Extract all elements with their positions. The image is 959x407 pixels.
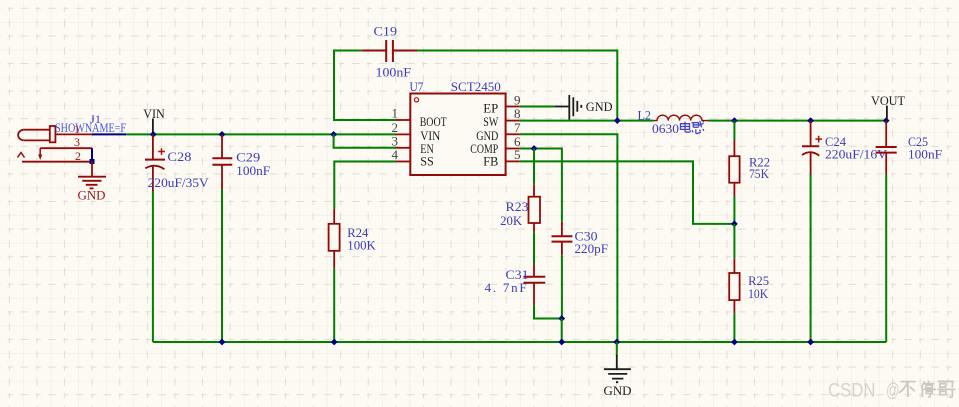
wire FB to divider node	[520, 161, 735, 224]
capacitor C30	[552, 222, 609, 256]
junction SW node	[614, 117, 621, 124]
svg-text:CSDN: CSDN	[828, 379, 876, 401]
pin 2 VIN	[392, 120, 411, 135]
wire EP to ground	[520, 106, 555, 108]
wire node down to rail	[561, 319, 563, 343]
svg-text:C19: C19	[374, 24, 398, 39]
svg-text:100nF: 100nF	[376, 65, 412, 80]
junction rail-R22	[731, 117, 738, 124]
capacitor C29	[212, 134, 270, 189]
svg-text:1: 1	[392, 106, 399, 121]
wire top from BOOT loop to C19 left	[334, 50, 362, 52]
wire C31 bottom elbow to C30 node	[534, 305, 562, 318]
svg-text:9: 9	[514, 92, 521, 107]
svg-text:GND: GND	[78, 188, 106, 203]
wire VOUT rail	[708, 120, 886, 122]
svg-text:C28: C28	[167, 149, 191, 164]
svg-text:7: 7	[514, 120, 521, 135]
junction rail-R24	[331, 339, 338, 346]
pin 6 COMP	[506, 134, 521, 149]
resistor R25	[729, 258, 769, 313]
svg-text:4. 7nF: 4. 7nF	[485, 280, 527, 295]
svg-text:75K: 75K	[749, 166, 770, 181]
junction C31/C30 node	[558, 315, 565, 322]
svg-text:SS: SS	[420, 154, 434, 169]
wire R25 to bottom rail	[733, 313, 735, 342]
inductor L2	[638, 108, 709, 137]
pin 9 EP	[506, 92, 521, 107]
resistor R23	[500, 184, 540, 232]
junction rail-C24	[807, 339, 814, 346]
wire R24 to bottom rail	[333, 268, 335, 342]
wire top from C19 right to SW vertical	[417, 50, 618, 52]
wire VIN rail	[126, 133, 396, 135]
capacitor C31	[485, 264, 546, 305]
junction VIN-EN	[330, 131, 337, 138]
wire C24 to bottom rail	[810, 174, 812, 342]
svg-text:1: 1	[74, 122, 80, 136]
junction VIN-C28	[150, 131, 157, 138]
svg-text:2: 2	[75, 149, 81, 163]
svg-text:SCT2450: SCT2450	[451, 79, 501, 94]
svg-text:BOOT: BOOT	[420, 114, 447, 129]
wire GND pin to bottom rail	[520, 134, 618, 342]
svg-text:R23: R23	[506, 199, 529, 214]
svg-text:100nF: 100nF	[236, 163, 270, 178]
net label VOUT	[871, 93, 905, 121]
wire C25 to bottom rail	[885, 174, 887, 342]
junction rail-VOUT	[883, 117, 890, 124]
wire vertical C19-right down to SW node	[616, 50, 618, 121]
ground GND bottom	[604, 342, 632, 398]
wire node to R25	[733, 224, 735, 258]
capacitor C25	[876, 121, 942, 174]
junction rail-R25	[731, 339, 738, 346]
svg-text:GND: GND	[604, 383, 632, 398]
svg-text:L2: L2	[638, 108, 652, 123]
wire COMP to C30 top	[520, 149, 562, 222]
junction COMP-R23	[531, 145, 538, 152]
svg-text:220uF/16V: 220uF/16V	[825, 147, 888, 162]
wire C29 to bottom rail	[221, 189, 223, 342]
wire EN from VIN junction	[334, 134, 396, 147]
svg-text:3: 3	[74, 135, 80, 149]
watermark CSDN	[828, 379, 955, 401]
svg-text:VIN: VIN	[143, 106, 165, 121]
junction rail-GND	[613, 339, 620, 346]
svg-text:SHOWNAME=F: SHOWNAME=F	[55, 121, 126, 135]
svg-text:0630: 0630	[652, 121, 679, 136]
wire R23 to C31	[533, 232, 535, 264]
wire SW to L2 rail	[520, 120, 654, 122]
pin 8 SW	[506, 106, 521, 121]
wire C30 to bottom node	[561, 255, 563, 318]
svg-text:U7: U7	[410, 79, 424, 94]
svg-text:100nF: 100nF	[908, 147, 942, 162]
ground GND under J1	[78, 177, 107, 203]
svg-text:5: 5	[514, 147, 521, 162]
svg-text:VOUT: VOUT	[871, 93, 905, 108]
ground GND at EP	[555, 95, 613, 120]
wire R22 to divider node	[733, 196, 735, 224]
pin 7 GND	[506, 120, 521, 135]
svg-text:SW: SW	[483, 114, 499, 129]
wire J1 junction to GND symbol	[91, 162, 93, 177]
wire vertical C19-left down to BOOT row	[334, 50, 396, 121]
svg-text:GND: GND	[586, 99, 613, 114]
pin 4 SS	[392, 147, 411, 162]
svg-text:4: 4	[392, 147, 399, 162]
pin 1 BOOT	[392, 106, 411, 121]
wire navy J1 pin3 to pin2 junction	[91, 148, 93, 161]
net label VIN	[143, 106, 165, 134]
capacitor C19	[362, 24, 417, 80]
svg-text:10K: 10K	[748, 286, 769, 301]
svg-text:@: @	[886, 379, 900, 401]
svg-text:100K: 100K	[347, 237, 376, 252]
capacitor C28	[145, 134, 209, 191]
junction rail-C24	[807, 117, 814, 124]
wire C28 to bottom rail	[152, 191, 154, 342]
op-amp U7 SCT2450	[410, 79, 506, 175]
pin 3 EN	[392, 133, 411, 148]
svg-text:20K: 20K	[500, 213, 523, 228]
pin 5 FB	[506, 147, 521, 162]
svg-text:FB: FB	[483, 154, 498, 169]
resistor R22	[729, 121, 770, 196]
wire COMP junction down to R23	[533, 149, 535, 185]
wire bottom ground rail	[153, 341, 886, 343]
junction VIN-C29	[219, 131, 226, 138]
svg-text:220uF/35V: 220uF/35V	[148, 175, 210, 190]
capacitor C24	[802, 121, 888, 174]
junction J1 pin2 node	[90, 159, 95, 164]
resistor R24	[329, 209, 377, 269]
wire SS to R24	[334, 162, 396, 209]
connector J1	[18, 112, 127, 163]
junction rail-C31C30	[558, 339, 565, 346]
svg-text:220pF: 220pF	[575, 241, 609, 256]
wire navy J1 pin1 to VIN rail	[92, 133, 126, 135]
junction divider node	[731, 221, 738, 228]
junction rail-C29	[219, 339, 226, 346]
